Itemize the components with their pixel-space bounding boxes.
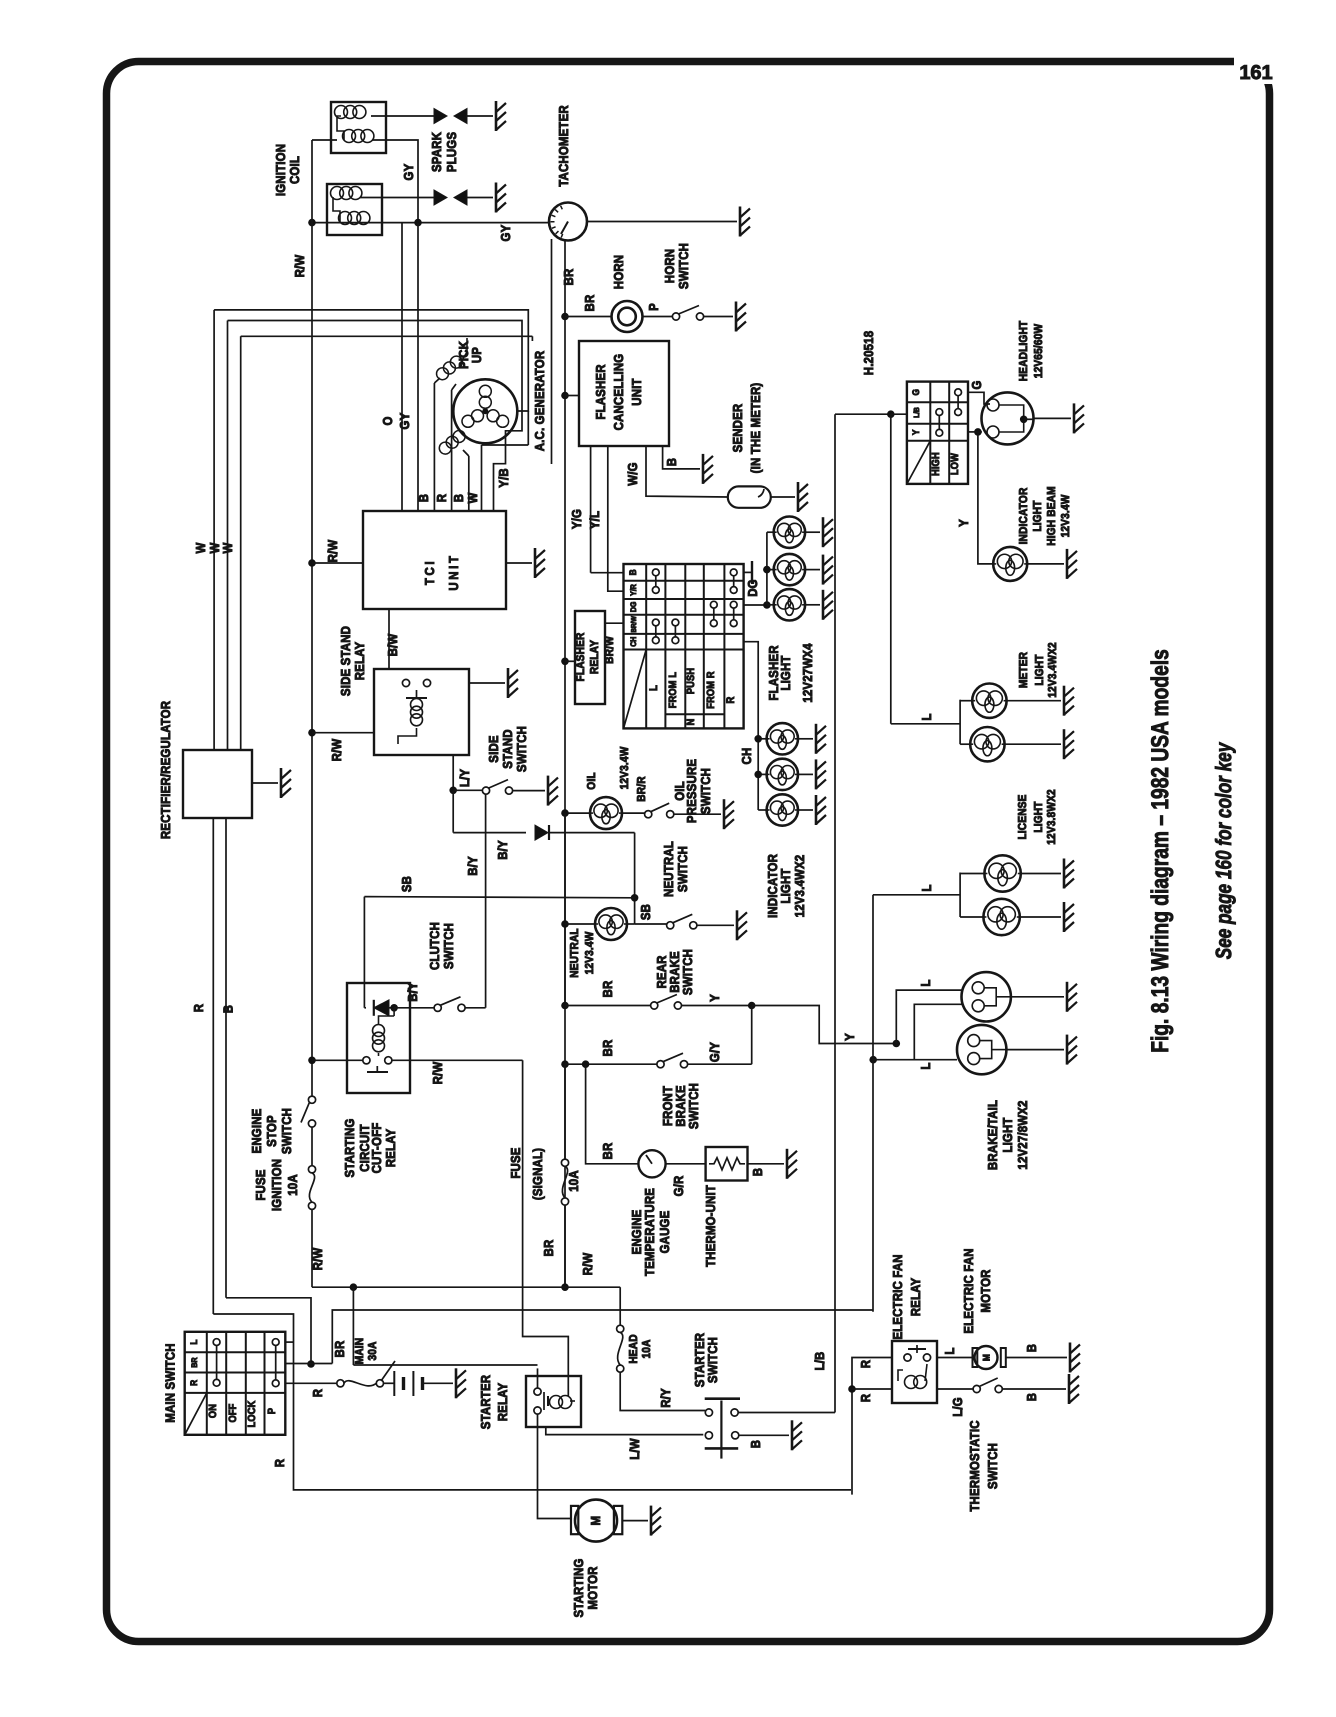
svg-text:L/Y: L/Y [457, 769, 472, 787]
svg-text:SENDER: SENDER [730, 403, 745, 452]
svg-text:FROM L: FROM L [667, 671, 679, 708]
svg-text:LIGHT: LIGHT [778, 868, 793, 903]
svg-text:See page 160 for color key: See page 160 for color key [1211, 741, 1236, 959]
svg-text:SWITCH: SWITCH [279, 1108, 294, 1154]
svg-text:M: M [588, 1516, 603, 1526]
svg-text:N: N [685, 719, 697, 726]
svg-text:L/G: L/G [950, 1397, 965, 1417]
svg-text:FLASHER: FLASHER [593, 364, 608, 420]
svg-text:B: B [416, 494, 431, 502]
svg-text:GY: GY [401, 163, 416, 180]
svg-text:RELAY: RELAY [908, 1278, 923, 1317]
svg-text:12V3.4WX2: 12V3.4WX2 [792, 855, 807, 918]
svg-text:L/W: L/W [627, 1438, 642, 1460]
svg-text:TEMPERATURE: TEMPERATURE [642, 1188, 657, 1276]
svg-text:FUSE: FUSE [508, 1147, 523, 1178]
svg-text:CH: CH [739, 748, 754, 765]
svg-text:STARTER: STARTER [478, 1374, 493, 1429]
svg-text:B/Y: B/Y [495, 840, 510, 860]
svg-text:R: R [272, 1458, 287, 1467]
svg-text:BR: BR [332, 1340, 347, 1357]
svg-text:MOTOR: MOTOR [585, 1566, 600, 1610]
svg-text:B: B [748, 1440, 763, 1448]
svg-text:R/W: R/W [580, 1252, 595, 1275]
svg-text:ON: ON [207, 1404, 219, 1418]
svg-text:B: B [750, 1168, 765, 1176]
svg-text:Y: Y [842, 1033, 857, 1041]
svg-text:P: P [646, 303, 661, 311]
svg-text:12V3.4W: 12V3.4W [1060, 495, 1072, 538]
svg-text:DG: DG [629, 602, 638, 613]
svg-text:THERMO-UNIT: THERMO-UNIT [703, 1185, 718, 1267]
svg-text:RELAY: RELAY [589, 640, 601, 674]
svg-text:NEUTRAL: NEUTRAL [661, 841, 676, 897]
svg-text:10A: 10A [566, 1170, 581, 1192]
svg-text:OFF: OFF [227, 1403, 239, 1422]
svg-text:Y: Y [956, 519, 971, 527]
svg-text:MAIN: MAIN [354, 1338, 366, 1365]
svg-text:Y: Y [911, 429, 922, 435]
svg-text:L: L [189, 1339, 200, 1344]
svg-text:L: L [919, 884, 934, 891]
svg-text:HEADLIGHT: HEADLIGHT [1018, 321, 1030, 382]
svg-text:ELECTRIC FAN: ELECTRIC FAN [890, 1254, 905, 1339]
svg-text:W: W [220, 542, 235, 553]
svg-text:LOW: LOW [949, 453, 961, 475]
svg-text:B: B [628, 569, 639, 575]
svg-text:BR: BR [600, 980, 615, 997]
svg-text:ENGINE: ENGINE [249, 1108, 264, 1153]
svg-text:(SIGNAL): (SIGNAL) [530, 1148, 545, 1200]
svg-text:W: W [193, 542, 208, 553]
svg-text:SWITCH: SWITCH [686, 1083, 701, 1129]
svg-text:12V65/60W: 12V65/60W [1033, 324, 1045, 378]
svg-text:L: L [648, 685, 660, 691]
svg-text:R/W: R/W [310, 1247, 325, 1270]
svg-text:10A: 10A [285, 1174, 300, 1196]
svg-text:Y/R: Y/R [629, 584, 638, 596]
svg-text:OIL: OIL [586, 772, 598, 789]
svg-text:12V27WX4: 12V27WX4 [800, 643, 815, 703]
svg-text:R: R [725, 696, 737, 703]
svg-text:SWITCH: SWITCH [698, 768, 713, 814]
svg-text:ELECTRIC FAN: ELECTRIC FAN [961, 1248, 976, 1333]
svg-text:RECTIFIER/REGULATOR: RECTIFIER/REGULATOR [158, 700, 173, 839]
svg-text:M: M [982, 1354, 993, 1361]
svg-text:R: R [858, 1359, 873, 1368]
svg-text:L/B: L/B [912, 407, 921, 418]
svg-text:CH: CH [629, 636, 638, 646]
svg-text:LIGHT: LIGHT [1000, 1117, 1015, 1152]
svg-text:RELAY: RELAY [352, 642, 367, 681]
svg-text:12V3.4W: 12V3.4W [584, 932, 596, 975]
svg-text:LIGHT: LIGHT [1032, 500, 1044, 531]
svg-text:R/W: R/W [329, 738, 344, 761]
svg-text:12V3.4W: 12V3.4W [619, 747, 631, 790]
svg-text:BR: BR [541, 1239, 556, 1256]
svg-text:L: L [918, 1062, 933, 1069]
svg-text:CANCELLING: CANCELLING [611, 354, 626, 431]
svg-text:BR/R: BR/R [636, 776, 648, 802]
svg-text:SWITCH: SWITCH [985, 1443, 1000, 1489]
svg-text:METER: METER [1018, 651, 1030, 688]
svg-text:B/Y: B/Y [405, 982, 420, 1002]
svg-text:R/W: R/W [325, 539, 340, 562]
svg-text:HORN: HORN [662, 249, 677, 283]
svg-text:SWITCH: SWITCH [676, 243, 691, 289]
svg-text:12V3.8WX2: 12V3.8WX2 [1046, 789, 1058, 845]
svg-text:UP: UP [469, 347, 484, 363]
svg-text:Y: Y [707, 994, 722, 1002]
svg-text:R: R [434, 493, 449, 502]
svg-text:10A: 10A [641, 1339, 653, 1358]
svg-text:TACHOMETER: TACHOMETER [556, 105, 571, 187]
svg-text:IGNITION: IGNITION [273, 144, 288, 196]
svg-text:HIGH BEAM: HIGH BEAM [1046, 486, 1058, 545]
svg-text:L: L [919, 713, 934, 720]
svg-text:SWITCH: SWITCH [675, 846, 690, 892]
svg-text:BR: BR [600, 1039, 615, 1056]
svg-text:PLUGS: PLUGS [444, 132, 459, 172]
svg-text:RELAY: RELAY [495, 1383, 510, 1422]
svg-text:A.C. GENERATOR: A.C. GENERATOR [532, 350, 547, 451]
svg-text:STARTING: STARTING [571, 1558, 586, 1617]
svg-text:(IN THE METER): (IN THE METER) [748, 383, 763, 474]
svg-text:SB: SB [638, 904, 653, 920]
svg-text:12V27/8WX2: 12V27/8WX2 [1015, 1100, 1030, 1169]
svg-text:O: O [380, 416, 395, 425]
svg-text:COIL: COIL [287, 156, 302, 184]
svg-text:SWITCH: SWITCH [441, 923, 456, 969]
svg-text:UNIT: UNIT [629, 378, 644, 405]
svg-text:L/B: L/B [812, 1352, 827, 1371]
svg-text:PRESSURE: PRESSURE [684, 759, 699, 823]
svg-text:Y/G: Y/G [569, 509, 584, 529]
svg-text:STAND: STAND [500, 729, 515, 768]
svg-text:SIDE STAND: SIDE STAND [338, 626, 353, 696]
svg-text:SPARK: SPARK [429, 132, 444, 172]
svg-text:GY: GY [498, 224, 513, 241]
svg-text:HEAD: HEAD [628, 1334, 640, 1363]
svg-text:W: W [465, 492, 480, 503]
svg-text:BRAKE/TAIL: BRAKE/TAIL [985, 1100, 1000, 1170]
svg-text:B: B [1024, 1344, 1039, 1352]
svg-text:CLUTCH: CLUTCH [427, 922, 442, 970]
svg-text:Y/L: Y/L [587, 511, 602, 529]
svg-text:R: R [858, 1393, 873, 1402]
svg-text:G/R: G/R [671, 1175, 686, 1196]
svg-text:BR: BR [190, 1357, 199, 1367]
svg-text:B/Y: B/Y [465, 856, 480, 876]
svg-text:H.20518: H.20518 [861, 331, 876, 375]
svg-text:BR: BR [600, 1142, 615, 1159]
svg-text:TCI: TCI [422, 559, 437, 585]
svg-text:30A: 30A [367, 1341, 379, 1360]
svg-text:L: L [918, 979, 933, 986]
svg-text:LIGHT: LIGHT [778, 655, 793, 690]
svg-text:GY: GY [397, 412, 412, 429]
svg-text:G/Y: G/Y [707, 1042, 722, 1062]
svg-text:STARTING: STARTING [342, 1118, 357, 1177]
svg-text:B: B [1024, 1393, 1039, 1401]
svg-text:BR: BR [582, 294, 597, 311]
svg-text:SWITCH: SWITCH [680, 949, 695, 995]
svg-text:STOP: STOP [264, 1115, 279, 1147]
svg-text:FLASHER: FLASHER [575, 632, 587, 681]
svg-text:B/W: B/W [385, 633, 400, 656]
svg-text:DG: DG [745, 579, 760, 597]
svg-text:HIGH: HIGH [930, 452, 942, 476]
svg-text:BR: BR [561, 268, 576, 285]
svg-text:Y/B: Y/B [496, 468, 511, 488]
svg-text:R/Y: R/Y [658, 1388, 673, 1408]
svg-text:P: P [266, 1408, 278, 1414]
svg-text:B: B [451, 494, 466, 502]
svg-text:GAUGE: GAUGE [657, 1210, 672, 1253]
svg-text:MAIN SWITCH: MAIN SWITCH [163, 1343, 178, 1422]
svg-text:HORN: HORN [611, 255, 626, 289]
svg-text:Fig. 8.13 Wiring diagram – 198: Fig. 8.13 Wiring diagram – 1982 USA mode… [1147, 649, 1174, 1053]
svg-text:161: 161 [1239, 62, 1272, 84]
svg-text:LIGHT: LIGHT [1033, 801, 1045, 832]
svg-text:L: L [942, 1347, 957, 1354]
svg-text:R/W: R/W [292, 254, 307, 277]
svg-text:CUT-OFF: CUT-OFF [369, 1123, 384, 1174]
svg-text:BR/W: BR/W [604, 636, 616, 664]
svg-text:BR/W: BR/W [630, 616, 638, 633]
svg-text:B: B [664, 458, 679, 466]
svg-text:LIGHT: LIGHT [1034, 654, 1046, 685]
svg-text:R: R [189, 1380, 200, 1386]
svg-text:LICENSE: LICENSE [1017, 794, 1029, 839]
svg-text:B: B [221, 1005, 236, 1013]
svg-text:R: R [191, 1003, 206, 1012]
svg-text:G: G [911, 389, 922, 396]
svg-text:SB: SB [399, 876, 414, 892]
svg-text:NEUTRAL: NEUTRAL [569, 928, 581, 978]
svg-text:INDICATOR: INDICATOR [1018, 487, 1030, 544]
svg-text:PUSH: PUSH [685, 668, 697, 694]
svg-text:W/G: W/G [625, 462, 640, 485]
svg-text:R: R [310, 1388, 325, 1397]
svg-text:FROM R: FROM R [705, 671, 717, 709]
svg-text:RELAY: RELAY [383, 1129, 398, 1168]
svg-text:FUSE: FUSE [253, 1169, 268, 1200]
svg-text:SWITCH: SWITCH [705, 1337, 720, 1383]
svg-text:G: G [969, 380, 984, 389]
svg-text:LOCK: LOCK [246, 1400, 258, 1427]
svg-text:SIDE: SIDE [486, 735, 501, 763]
svg-text:THERMOSTATIC: THERMOSTATIC [967, 1420, 982, 1512]
svg-text:MOTOR: MOTOR [978, 1269, 993, 1313]
svg-text:UNIT: UNIT [446, 553, 461, 590]
svg-text:SWITCH: SWITCH [514, 726, 529, 772]
svg-text:12V3.4WX2: 12V3.4WX2 [1047, 642, 1059, 698]
svg-text:IGNITION: IGNITION [269, 1159, 284, 1211]
svg-text:R/W: R/W [430, 1061, 445, 1084]
